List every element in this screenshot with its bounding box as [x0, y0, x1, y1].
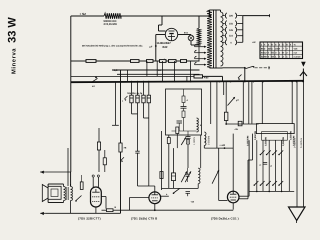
svg-text:Volt: Volt	[294, 47, 298, 50]
svg-text:Bei Netzbetrieb Reihung u. den: Bei Netzbetrieb Reihung u. den Lautsprec…	[82, 45, 143, 48]
wire v162	[161, 61, 163, 82]
annotation note	[82, 45, 143, 48]
label R1 value	[104, 20, 117, 26]
cap C7 grid	[0, 0, 1, 1]
lamp L1 dial	[188, 35, 194, 41]
svg-text:0,5500M: 0,5500M	[264, 137, 267, 146]
capacitor C6 in box	[177, 121, 183, 131]
shield box IF	[166, 89, 202, 135]
wire v99	[98, 128, 100, 142]
wire heater line	[112, 69, 200, 71]
wire v161	[161, 131, 163, 190]
tube V4 rectifier	[165, 28, 177, 40]
label V2	[131, 217, 157, 221]
wire fuse right	[203, 76, 223, 81]
labels switch bank vert	[246, 136, 295, 146]
wire c9 down	[173, 181, 175, 189]
wire v248	[248, 81, 250, 124]
wire left bus lower	[70, 172, 72, 186]
label V4 1148/AB2	[157, 42, 172, 49]
diode arrow a4	[92, 76, 98, 88]
svg-text:2×0,15 MΩ: 2×0,15 MΩ	[104, 23, 117, 26]
wire y62 g	[187, 60, 200, 62]
svg-text:0,5500M: 0,5500M	[290, 131, 293, 140]
wire v174	[174, 61, 176, 82]
svg-text:7B: 7B	[124, 147, 127, 150]
terminal pickup top	[40, 171, 70, 174]
svg-text:1148/A/B67: 1148/A/B67	[157, 42, 172, 45]
wire v223	[223, 82, 225, 96]
voltage selector plugs	[223, 13, 243, 45]
tube V3	[227, 191, 239, 209]
wire v243	[242, 81, 244, 124]
svg-text:C: C	[260, 164, 262, 167]
transformer T1 core	[214, 10, 217, 68]
wire bottom mid bus	[162, 187, 199, 189]
trim arrow c11	[181, 137, 186, 145]
title Minerva 33 W (vertical)	[7, 17, 19, 74]
wire v188 down	[187, 144, 189, 168]
label L4 vert	[208, 136, 211, 145]
svg-text:+ a2ℓ: + a2ℓ	[219, 144, 226, 147]
resistor R3	[86, 60, 96, 63]
resistor R15	[107, 206, 117, 212]
wire v120 heater	[120, 70, 122, 143]
svg-text:0,5500M: 0,5500M	[254, 131, 257, 140]
tube V1 output	[91, 187, 102, 207]
label V1	[78, 217, 101, 221]
capacitors C1-C4 cluster	[130, 95, 151, 103]
coil L4 top	[204, 132, 206, 146]
wire c2 down	[137, 103, 139, 151]
wire speaker top	[48, 184, 63, 187]
svg-text:mA: mA	[294, 52, 298, 55]
resistor R12 in box	[182, 111, 185, 118]
svg-text:+2ℓ: +2ℓ	[252, 41, 256, 44]
wire R15	[102, 209, 121, 211]
wire y62 b	[96, 60, 131, 62]
svg-text:0~220Vm: 0~220Vm	[300, 138, 303, 148]
wire top supply y16	[71, 15, 104, 17]
switch S1 mains	[246, 66, 255, 69]
wire v232	[232, 134, 234, 192]
label lamp	[184, 32, 189, 35]
wire V1 cathode	[96, 197, 106, 214]
labels cap cluster	[127, 92, 143, 95]
tube V2	[149, 192, 161, 210]
labels box corners	[254, 131, 293, 140]
label uY node	[150, 46, 153, 49]
wire v146	[146, 61, 148, 76]
wire c3 down	[144, 103, 149, 118]
capacitor C8 coupling	[135, 151, 139, 153]
wire cap cluster feeds	[132, 82, 149, 95]
wire v262	[261, 81, 263, 123]
capacitor C9 box	[172, 173, 176, 181]
svg-text:(7D5 22B/CT7): (7D5 22B/CT7)	[78, 217, 101, 221]
svg-text:+aℓ: +aℓ	[191, 200, 195, 203]
wire bottom long	[121, 209, 234, 213]
table voltage chart	[260, 42, 303, 59]
wire left bus	[70, 16, 72, 172]
svg-text:0~220Vm: 0~220Vm	[294, 138, 297, 148]
wires switch bank verticals	[249, 140, 289, 191]
wire R13 down	[225, 121, 227, 125]
speaker LS1	[42, 185, 61, 202]
wire T1 top	[210, 10, 221, 16]
wire speaker bottom	[48, 199, 63, 202]
svg-text:0,5500M: 0,5500M	[208, 136, 211, 145]
node j224	[224, 147, 226, 149]
wire primary bottom	[210, 67, 223, 69]
transformer T2 output	[64, 187, 73, 201]
wire to switch	[223, 67, 245, 69]
switch contacts row1	[260, 150, 284, 155]
wire y62 f	[176, 60, 181, 62]
pot wiper arrow	[238, 75, 242, 81]
resistor R4	[131, 60, 140, 63]
resistor R16 small	[160, 172, 163, 179]
wire v224	[219, 148, 228, 200]
wire y62 c	[139, 60, 147, 62]
switch contacts row2	[254, 181, 284, 186]
wire v216	[216, 82, 218, 149]
label +2V	[252, 41, 256, 44]
label P1	[236, 99, 239, 102]
switch S3	[166, 189, 180, 196]
wire v292	[291, 81, 293, 124]
wire v120 lower	[120, 152, 122, 213]
wire selector bus	[242, 16, 244, 43]
node junction V4 right	[155, 45, 157, 47]
trim arrow L3	[212, 170, 219, 184]
coil L3	[198, 135, 201, 184]
svg-text:0,05500M: 0,05500M	[246, 136, 249, 146]
wire y124 stub	[226, 123, 258, 125]
wire tube to lamp	[178, 34, 191, 37]
wire v99 lower	[98, 150, 100, 172]
wire v127	[127, 70, 129, 82]
fuse F1	[194, 75, 209, 80]
transformer primary taps	[195, 44, 207, 66]
label +1B	[113, 69, 162, 72]
wire v251	[251, 81, 253, 123]
wire selector out	[243, 14, 270, 17]
wire top supply right	[121, 15, 211, 17]
svg-text:m.Instr: m.Instr	[294, 56, 301, 59]
label +SZ	[80, 12, 87, 16]
wire switch down	[244, 68, 246, 82]
wire output bottom bus	[249, 191, 294, 193]
junction dots ground bus	[120, 81, 304, 83]
resistor R1 top dropping	[104, 13, 121, 19]
box output section	[256, 124, 294, 141]
labels mains vert	[294, 138, 304, 148]
capacitor C11	[186, 131, 191, 144]
wire c1 down	[132, 103, 138, 114]
wire v204 down	[203, 146, 205, 149]
wire screen line y62	[71, 60, 86, 62]
resistor R17 small	[103, 150, 106, 172]
capacitor C13 2n	[234, 121, 242, 131]
svg-text:0,5500M: 0,5500M	[282, 137, 285, 146]
label a2	[191, 144, 226, 203]
bus line y76	[71, 75, 194, 77]
wire lamp down	[191, 41, 199, 61]
wire output bus to tube	[239, 191, 249, 196]
arrow tick v120	[121, 157, 124, 162]
wire V2 top	[138, 186, 155, 192]
wire mid link	[130, 196, 169, 210]
wire v173	[173, 148, 175, 173]
wire y62 d	[153, 60, 160, 62]
wire R2 top	[198, 16, 200, 28]
resistor R5	[147, 60, 154, 63]
svg-text:~2n: ~2n	[234, 128, 239, 131]
resistor R13	[224, 112, 228, 120]
capacitor C10	[186, 168, 190, 182]
resistor R7	[169, 60, 177, 63]
resistor R14 small	[80, 175, 83, 189]
capacitor C12 in bank	[260, 162, 273, 168]
coil L2 in box	[197, 118, 203, 132]
wire T2 sec bot	[70, 201, 72, 214]
bus line y74	[117, 73, 200, 75]
resistor R8	[181, 60, 187, 63]
wire mains v303	[302, 81, 304, 207]
wire V3 right	[239, 134, 253, 199]
wire j224 h	[204, 147, 233, 149]
bus heavy ground	[71, 81, 304, 82]
switch S2	[75, 196, 81, 202]
wire T2 sec top	[70, 184, 72, 187]
wire rectifier feed	[159, 16, 166, 31]
transformer T1 primary winding	[207, 10, 212, 68]
wire mains v296	[296, 81, 298, 207]
wire if inner v183	[183, 89, 185, 96]
resistor R10 vertical	[97, 142, 100, 150]
label node arrow	[164, 57, 166, 61]
wire c2 down b	[137, 153, 139, 186]
wire L3 down	[197, 184, 199, 189]
wire v210	[210, 82, 212, 125]
resistor R2 heater dropper	[197, 28, 201, 45]
tube V1 pins	[92, 175, 99, 187]
wire y62 e	[166, 60, 169, 62]
wire v226 pot feed	[225, 82, 227, 113]
resistor R11 in box	[182, 96, 189, 103]
svg-text:+ SZ: + SZ	[80, 12, 87, 16]
wire if box bottom	[172, 130, 197, 132]
plug arrow bottom	[289, 207, 306, 223]
wire v168	[168, 135, 170, 188]
wire c4 down	[148, 103, 150, 186]
svg-text:10n 10n 4µ 4µ: 10n 10n 4µ 4µ	[127, 92, 143, 95]
potentiometer P1 wiper	[228, 97, 236, 106]
resistor R19 small	[176, 127, 179, 148]
trim arrows	[181, 171, 191, 182]
wire V4 left down	[156, 35, 166, 62]
wire v115	[112, 82, 119, 125]
wire v190	[190, 61, 192, 82]
label c arrow	[122, 96, 128, 103]
terminal pickup bottom	[40, 212, 120, 215]
plug arrow mains	[300, 62, 307, 82]
svg-text:+1,8: +1,8	[113, 69, 119, 72]
svg-text:(7D1 2b2b) CT9 B: (7D1 2b2b) CT9 B	[131, 217, 157, 221]
wire v157	[156, 61, 158, 76]
wire switch out	[255, 66, 271, 69]
resistor R6	[160, 60, 167, 63]
label C11 vert	[193, 137, 196, 145]
label V3	[211, 217, 239, 221]
resistor R18 small	[167, 138, 170, 144]
wire v186	[186, 76, 188, 81]
svg-text:B2Z: B2Z	[163, 46, 168, 49]
wire if inner lower	[183, 118, 185, 132]
wire left bus2	[67, 148, 69, 186]
transformer T1 secondary winding	[220, 12, 223, 66]
resistor R9 vertical	[119, 143, 127, 152]
capacitor C14 small	[186, 192, 191, 197]
svg-text:(7D5 Da3bLs CG1 ): (7D5 Da3bLs CG1 )	[211, 217, 239, 221]
node switch junction	[244, 67, 246, 69]
capacitor C5 in box	[181, 103, 187, 112]
svg-text:1,R0Y5: 1,R0Y5	[193, 137, 196, 145]
